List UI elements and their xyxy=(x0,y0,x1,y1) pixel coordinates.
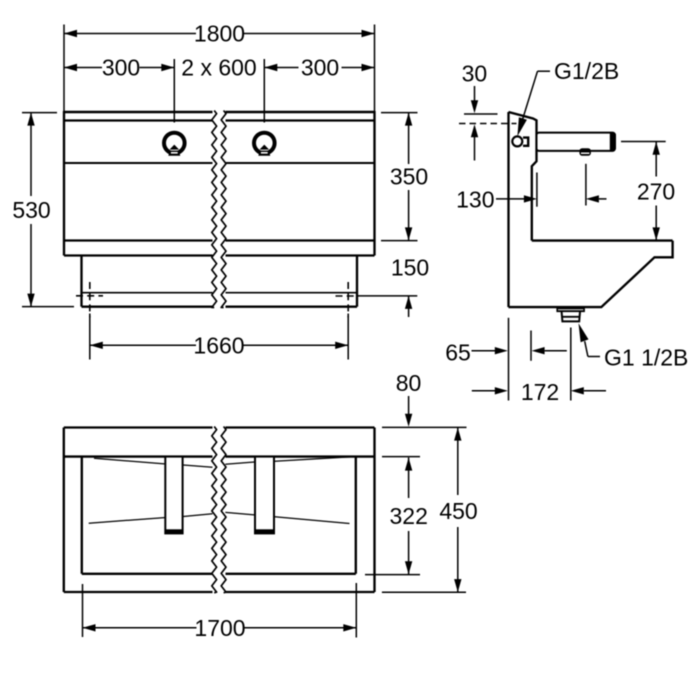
front splashback bottom line (left) xyxy=(64,162,213,164)
drain body mid line xyxy=(562,316,580,318)
bottom view top edge (left) xyxy=(64,426,213,428)
tap sensor faucet symbol at x=264.3 xyxy=(254,133,275,154)
fixing hole centermark right xyxy=(336,295,357,297)
break line left (bottom view) xyxy=(212,427,217,593)
break line left (front view) xyxy=(212,111,217,308)
wall extension line (lower) xyxy=(508,318,510,401)
front splashback bottom line (right) xyxy=(226,162,375,164)
apron interior rail line (left) xyxy=(82,292,213,294)
dimension 150 xyxy=(358,295,418,297)
apron bottom (left) xyxy=(82,306,213,308)
svg-text:150: 150 xyxy=(391,255,429,281)
bottom view top edge (right) xyxy=(226,426,375,428)
dimension 300 (right) xyxy=(264,67,298,69)
inner basin bottom edge (left) xyxy=(82,573,213,575)
extension line splashback front xyxy=(536,173,538,207)
extension line x=64 xyxy=(63,25,65,112)
svg-text:300: 300 xyxy=(301,55,339,81)
dimension 172 xyxy=(472,390,495,392)
svg-text:172: 172 xyxy=(521,379,559,405)
svg-text:G1 1/2B: G1 1/2B xyxy=(604,345,688,371)
dimension 300 (left) xyxy=(64,67,102,69)
standpipe drain 1 (plan) xyxy=(165,457,182,534)
sensor tap spout (side view) xyxy=(537,133,616,151)
inner basin bottom edge (right) xyxy=(226,573,356,575)
extension line aerator centerline xyxy=(585,164,587,206)
svg-text:322: 322 xyxy=(390,503,428,529)
splashback front extension (lower) xyxy=(530,331,532,361)
bottom view bottom edge (right) xyxy=(226,591,375,593)
bottom view left edge xyxy=(63,428,65,593)
splashback profile xyxy=(509,112,537,241)
front rim second line (right) xyxy=(226,119,375,121)
apron interior rail line (right) xyxy=(226,292,358,294)
front lip bottom line (left) xyxy=(64,254,213,256)
dimension 530 xyxy=(22,112,57,114)
front basin bottom line (left) xyxy=(64,239,213,241)
svg-text:450: 450 xyxy=(439,498,477,524)
extension line 322 bottom xyxy=(365,574,420,576)
svg-text:65: 65 xyxy=(445,339,471,365)
svg-text:80: 80 xyxy=(396,370,422,396)
bottom view back band line (right) xyxy=(226,455,375,457)
svg-text:2 x 600: 2 x 600 xyxy=(181,55,256,81)
dimension 1800 xyxy=(64,33,196,35)
trough front and bottom profile xyxy=(509,241,673,308)
svg-text:1660: 1660 xyxy=(193,332,244,358)
bottom view bottom edge (left) xyxy=(64,591,213,593)
extension line y=427.4 (80 bottom / 450 top) xyxy=(382,426,467,428)
svg-text:270: 270 xyxy=(637,178,675,204)
front top rim line (left) xyxy=(64,111,213,113)
front lip bottom line (right) xyxy=(226,254,375,256)
break line right (front view) xyxy=(221,111,226,308)
extension line x=374.5 xyxy=(374,25,376,112)
front view right edge xyxy=(373,111,375,256)
dimension 1700 xyxy=(82,584,84,637)
basin floor fold lines xyxy=(94,458,165,464)
aerator / sensor bump under spout xyxy=(579,148,591,156)
extension line tap1 centerline xyxy=(173,59,175,123)
fixing hole centermark left xyxy=(76,295,103,297)
svg-text:1700: 1700 xyxy=(194,615,245,641)
front basin bottom line (right) xyxy=(226,239,375,241)
dimension 1660 xyxy=(89,314,91,360)
svg-text:530: 530 xyxy=(12,197,50,223)
svg-text:30: 30 xyxy=(462,61,488,87)
apron right edge xyxy=(356,256,358,307)
front view left edge xyxy=(63,111,65,256)
break line right (bottom view) xyxy=(221,427,226,593)
wall line xyxy=(507,112,509,307)
extension line 30 top xyxy=(464,113,498,115)
svg-text:130: 130 xyxy=(456,187,494,213)
bottom view back band line (left) xyxy=(64,455,213,457)
drain fitting (side view) xyxy=(556,307,585,312)
extension line spout level xyxy=(621,141,666,143)
extension line 450 bottom xyxy=(382,591,466,593)
svg-text:350: 350 xyxy=(390,164,428,190)
deck line xyxy=(532,239,673,241)
front rim second line (left) xyxy=(64,119,213,121)
svg-text:1800: 1800 xyxy=(194,21,245,47)
svg-text:300: 300 xyxy=(102,55,140,81)
svg-text:G1/2B: G1/2B xyxy=(554,58,619,84)
drain centerline extension xyxy=(570,328,572,401)
inner basin left edge xyxy=(81,457,83,574)
extension line 322 top xyxy=(382,456,420,458)
apron bottom (right) xyxy=(226,306,358,308)
bottom view right edge xyxy=(373,428,375,593)
extension line tap2 centerline xyxy=(263,59,265,123)
apron left edge xyxy=(80,256,82,307)
G1/2B inlet hole xyxy=(512,136,522,146)
label G1 1/2B with leader xyxy=(579,323,589,342)
inner basin right edge xyxy=(355,457,357,574)
drain body xyxy=(562,312,580,322)
front top rim line (right) xyxy=(226,111,375,113)
dimension 350 xyxy=(381,112,418,114)
dashed reference line 30 bottom xyxy=(459,123,517,125)
tap sensor faucet symbol at x=174.3 xyxy=(164,133,185,154)
standpipe drain 2 (plan) xyxy=(255,457,274,534)
